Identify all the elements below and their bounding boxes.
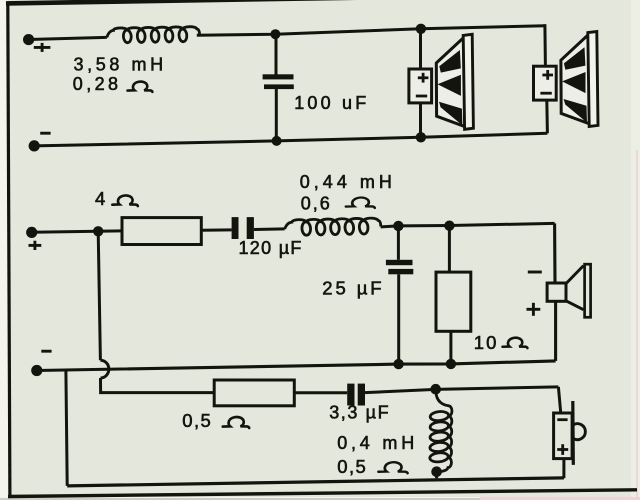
wire cap bottom lead: [275, 89, 278, 141]
wire tweeter top lead: [558, 387, 560, 414]
tweeter plate bar: [571, 401, 575, 465]
wire coil bottom stub: [435, 472, 438, 479]
wire woofer2 bottom lead: [545, 100, 549, 134]
wire tweeter bottom lead: [562, 459, 565, 479]
svg-text:0,5: 0,5: [337, 456, 367, 477]
wire: [365, 387, 558, 393]
wire: [101, 378, 215, 393]
svg-text:10: 10: [474, 332, 499, 353]
svg-text:0,6: 0,6: [301, 193, 332, 213]
wire bottom rail top section: [34, 133, 547, 146]
capacitor C2 120 uF: [232, 217, 239, 239]
svg-text:0,28: 0,28: [73, 74, 122, 94]
wire 10ohm bottom lead: [449, 331, 452, 364]
capacitor C1 100 uF: [263, 74, 294, 79]
wire branch from mid + down: [98, 231, 100, 360]
speaker midrange: [566, 266, 584, 310]
plus sign midrange: [527, 303, 541, 316]
node coil bottom junction: [431, 466, 442, 477]
wire woofer1 bottom lead: [419, 103, 422, 137]
wire mid top rail: [381, 223, 555, 227]
wire cap top lead: [275, 34, 278, 75]
wire woofer1 top lead: [419, 29, 422, 70]
wire 25uF top lead: [397, 226, 400, 260]
node 10ohm top: [444, 221, 454, 231]
wire: [32, 231, 122, 232]
tweeter dome: [573, 424, 585, 440]
svg-text:100 uF: 100 uF: [294, 93, 369, 113]
plus sign top input: [34, 43, 51, 52]
wire: [254, 227, 285, 231]
resistor R3 0,5 ohm: [214, 380, 294, 406]
resistor R2 10 ohm: [436, 272, 471, 331]
speaker tweeter: [554, 413, 573, 459]
svg-text:0,4 mH: 0,4 mH: [337, 433, 418, 453]
inductor L1 3,58 mH: [107, 27, 200, 43]
minus sign mid input: [41, 350, 51, 353]
wire hop over ground rail: [100, 360, 108, 378]
node top cap junction: [270, 29, 280, 39]
node mid branch junction: [93, 226, 103, 236]
inductor L2 0,44 mH: [285, 218, 381, 235]
node 10ohm bottom: [446, 359, 456, 369]
svg-text:120 µF: 120 µF: [239, 238, 303, 258]
svg-text:0,44 mH: 0,44 mH: [300, 172, 396, 192]
node 25uF bottom: [393, 359, 403, 369]
node + input mid: [26, 227, 37, 238]
resistor R1 4 ohm: [122, 218, 201, 245]
wire mid ground rail: [37, 361, 556, 371]
svg-text:25 µF: 25 µF: [322, 278, 384, 299]
speaker woofer LS2: [534, 32, 599, 127]
node woofer1 top: [416, 24, 426, 34]
inductor L3 0,4 mH vertical: [429, 390, 452, 472]
minus sign top input: [40, 132, 50, 135]
svg-text:0,5: 0,5: [182, 410, 212, 431]
wire midrange bottom lead: [554, 301, 557, 361]
speaker woofer LS1: [409, 34, 474, 129]
wire midrange top lead: [553, 223, 557, 283]
node coil top junction: [430, 384, 441, 395]
wire: [294, 391, 347, 394]
node - input mid: [31, 365, 42, 376]
wire 10ohm top lead: [448, 226, 451, 272]
plus sign tweeter: [557, 444, 568, 455]
capacitor C3 25 uF: [386, 260, 413, 265]
svg-text:4: 4: [95, 188, 105, 209]
plus sign mid input: [29, 241, 42, 250]
wire bottom rail: [67, 478, 564, 486]
svg-text:3,58 mH: 3,58 mH: [74, 55, 167, 75]
wire woofer2 top lead: [543, 24, 547, 66]
wire left drop to bottom rail: [66, 371, 67, 486]
node cap bottom junction: [272, 136, 282, 146]
wire 25uF bottom lead: [397, 274, 400, 364]
minus sign midrange: [528, 271, 542, 274]
wire: [29, 37, 107, 39]
wire: [201, 228, 231, 231]
node 25uF top: [393, 221, 403, 231]
node + input top: [23, 34, 34, 45]
node - input top: [29, 140, 40, 151]
node woofer1 bottom: [416, 132, 426, 142]
svg-text:3,3 µF: 3,3 µF: [329, 402, 390, 422]
minus sign tweeter: [557, 418, 567, 421]
capacitor C4 3,3 uF: [347, 384, 354, 406]
wire top rail: [197, 26, 545, 36]
